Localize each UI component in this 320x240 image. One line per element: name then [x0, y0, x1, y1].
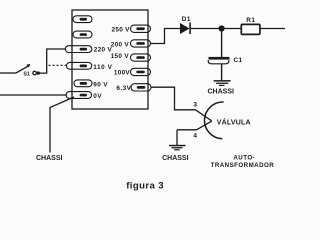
svg-text:R1: R1 [246, 17, 255, 24]
svg-text:AUTO-: AUTO- [233, 155, 255, 162]
svg-text:C1: C1 [234, 57, 243, 64]
svg-text:90 V: 90 V [93, 81, 108, 88]
svg-text:200 V: 200 V [111, 41, 130, 48]
svg-text:D1: D1 [182, 16, 191, 23]
svg-text:250 V: 250 V [111, 27, 130, 34]
svg-text:6.3V: 6.3V [116, 85, 131, 92]
svg-text:4: 4 [193, 133, 197, 140]
svg-text:S1: S1 [23, 71, 30, 77]
svg-text:TRANSFORMADOR: TRANSFORMADOR [211, 162, 275, 169]
svg-text:CHASSI: CHASSI [36, 155, 63, 162]
svg-text:CHASSI: CHASSI [162, 155, 189, 162]
svg-text:VÁLVULA: VÁLVULA [217, 117, 251, 126]
svg-text:3: 3 [193, 101, 197, 108]
svg-text:100V: 100V [114, 70, 131, 77]
svg-text:0V: 0V [93, 93, 102, 100]
svg-text:110 V: 110 V [93, 64, 112, 71]
svg-text:CHASSI: CHASSI [208, 89, 235, 96]
svg-text:figura 3: figura 3 [126, 181, 164, 192]
svg-text:150 V: 150 V [111, 53, 130, 60]
